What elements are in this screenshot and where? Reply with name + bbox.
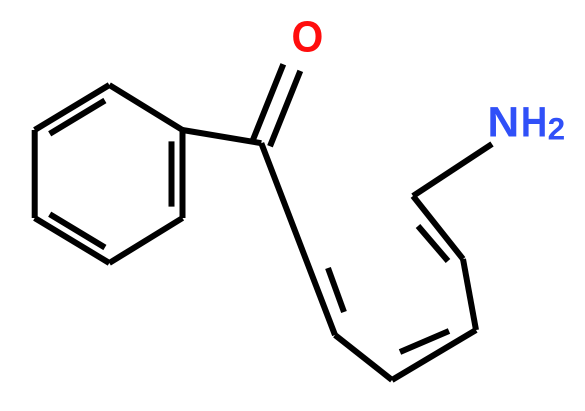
bond carbonyl C down to aminophenyl ring: [261, 143, 335, 335]
aromatic tick along bottom-right edge: [400, 331, 449, 352]
aromatic tick along upper-right edge: [418, 226, 448, 261]
C=O double bond: [253, 64, 300, 146]
phenyl ring: [35, 85, 183, 263]
svg-text:O: O: [292, 12, 324, 61]
aromatic tick along C-ring arm: [328, 268, 344, 312]
aminophenyl ring lower-left edge: [335, 335, 392, 380]
amine NH2 label: [487, 99, 519, 146]
svg-text:2: 2: [548, 111, 566, 147]
svg-text:H: H: [521, 99, 547, 146]
bond phenyl to carbonyl C: [183, 130, 262, 143]
oxygen label O: [292, 12, 324, 61]
aminophenyl ring upper-right edge: [413, 196, 463, 259]
bond ring to NH2: [413, 144, 492, 196]
svg-text:N: N: [487, 99, 519, 146]
aminophenyl ring right edge: [463, 259, 476, 330]
aminophenyl ring bottom-right edge: [392, 330, 476, 380]
